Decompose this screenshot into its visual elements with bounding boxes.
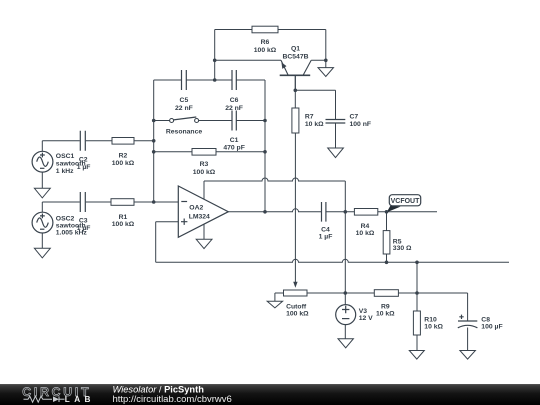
svg-text:http://circuitlab.com/cbvrwv6: http://circuitlab.com/cbvrwv6 xyxy=(113,394,232,405)
svg-text:C3: C3 xyxy=(79,217,88,224)
svg-text:R6: R6 xyxy=(261,39,270,46)
svg-text:1 µF: 1 µF xyxy=(77,225,91,232)
svg-text:100 kΩ: 100 kΩ xyxy=(254,47,277,54)
svg-text:VCFOUT: VCFOUT xyxy=(391,198,421,205)
svg-text:12 V: 12 V xyxy=(359,315,373,322)
svg-text:330 Ω: 330 Ω xyxy=(393,245,412,252)
svg-text:10 kΩ: 10 kΩ xyxy=(376,310,395,317)
svg-text:1 kHz: 1 kHz xyxy=(56,168,74,175)
svg-text:C4: C4 xyxy=(321,227,330,234)
svg-text:C6: C6 xyxy=(230,97,239,104)
svg-text:OSC2: OSC2 xyxy=(56,216,75,223)
svg-text:C5: C5 xyxy=(180,97,189,104)
svg-text:1 µF: 1 µF xyxy=(77,164,91,171)
svg-text:OA2: OA2 xyxy=(189,205,203,212)
svg-text:R3: R3 xyxy=(200,161,209,168)
svg-text:Q1: Q1 xyxy=(291,46,300,53)
svg-text:R9: R9 xyxy=(381,303,390,310)
svg-text:100 nF: 100 nF xyxy=(350,121,372,128)
svg-text:100 kΩ: 100 kΩ xyxy=(112,160,135,167)
svg-text:22 nF: 22 nF xyxy=(225,105,243,112)
svg-text:10 kΩ: 10 kΩ xyxy=(305,121,324,128)
svg-text:C2: C2 xyxy=(79,157,88,164)
svg-text:100 kΩ: 100 kΩ xyxy=(193,169,216,176)
svg-text:R2: R2 xyxy=(119,153,128,160)
svg-text:V3: V3 xyxy=(359,308,368,315)
svg-text:10 kΩ: 10 kΩ xyxy=(356,230,375,237)
svg-text:470 pF: 470 pF xyxy=(223,145,245,152)
svg-text:C1: C1 xyxy=(230,137,239,144)
svg-text:Cutoff: Cutoff xyxy=(286,303,307,310)
svg-text:Resonance: Resonance xyxy=(166,129,202,136)
svg-text:R10: R10 xyxy=(424,316,437,323)
svg-text:100 µF: 100 µF xyxy=(481,324,502,331)
svg-text:100 kΩ: 100 kΩ xyxy=(286,310,309,317)
svg-text:R1: R1 xyxy=(119,214,128,221)
svg-text:LAB: LAB xyxy=(65,395,95,404)
svg-text:10 kΩ: 10 kΩ xyxy=(424,324,443,331)
svg-text:C7: C7 xyxy=(350,113,359,120)
svg-text:R7: R7 xyxy=(305,113,314,120)
svg-text:LM324: LM324 xyxy=(189,213,210,220)
svg-text:OSC1: OSC1 xyxy=(56,153,75,160)
svg-text:22 nF: 22 nF xyxy=(175,105,193,112)
svg-text:BC547B: BC547B xyxy=(282,53,308,60)
svg-text:R4: R4 xyxy=(361,223,370,230)
svg-text:1 µF: 1 µF xyxy=(319,234,333,241)
svg-text:100 kΩ: 100 kΩ xyxy=(112,221,135,228)
svg-text:C8: C8 xyxy=(481,316,490,323)
